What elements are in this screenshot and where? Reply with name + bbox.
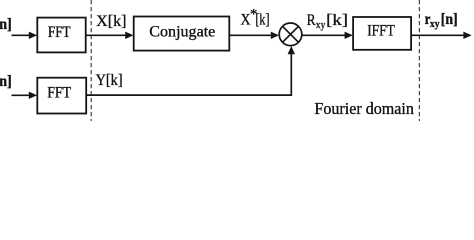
svg-text:xy: xy bbox=[430, 18, 440, 30]
input label y[n] (clipped, shows "n]") bbox=[0, 73, 12, 90]
node label Y[k] bbox=[96, 72, 123, 89]
svg-text:Fourier domain: Fourier domain bbox=[314, 99, 414, 118]
svg-text:FFT: FFT bbox=[47, 85, 71, 102]
block FFT2 bbox=[37, 78, 86, 114]
svg-text:xy: xy bbox=[316, 19, 326, 31]
block IFFT bbox=[353, 17, 411, 50]
wire FFT2 to multiplier (horizontal segment) bbox=[86, 94, 292, 96]
block Conjugate bbox=[134, 17, 230, 51]
block FFT1 bbox=[37, 18, 85, 53]
svg-text:n]: n] bbox=[0, 73, 12, 90]
svg-text:Conjugate: Conjugate bbox=[149, 24, 215, 41]
dashed boundary right (Fourier domain border) bbox=[418, 0, 420, 121]
svg-text:X[k]: X[k] bbox=[96, 13, 126, 30]
wire FFT1 to Conjugate bbox=[86, 32, 134, 39]
svg-text:FFT: FFT bbox=[48, 24, 71, 41]
svg-text:R: R bbox=[307, 12, 316, 29]
wire FFT2 to multiplier (vertical riser with arrowhead) bbox=[288, 46, 295, 96]
node label X[k] bbox=[96, 13, 126, 30]
svg-text:[n]: [n] bbox=[441, 11, 458, 28]
output label rxy[n] bbox=[425, 11, 458, 30]
wire IFFT to output rxy[n] bbox=[411, 32, 472, 39]
svg-text:[k]: [k] bbox=[326, 12, 348, 29]
wire Conjugate to multiplier bbox=[229, 32, 279, 39]
dashed boundary left (Fourier domain border) bbox=[90, 0, 92, 121]
wire y[n] to FFT2 bbox=[12, 92, 38, 99]
wire multiplier to IFFT bbox=[302, 32, 353, 39]
svg-text:IFFT: IFFT bbox=[367, 23, 395, 40]
node label X*[k] (conjugated spectrum) bbox=[241, 6, 270, 28]
svg-text:n]: n] bbox=[0, 16, 12, 33]
svg-text:Y[k]: Y[k] bbox=[96, 72, 123, 89]
input label x[n] (clipped, shows "n]") bbox=[0, 16, 12, 33]
multiplier node (circle with X) bbox=[279, 23, 302, 46]
wire x[n] to FFT1 bbox=[12, 32, 38, 39]
label Fourier domain bbox=[314, 99, 414, 118]
node label Rxy[k] (cross-spectrum) bbox=[307, 12, 348, 31]
svg-text:[k]: [k] bbox=[255, 12, 269, 29]
